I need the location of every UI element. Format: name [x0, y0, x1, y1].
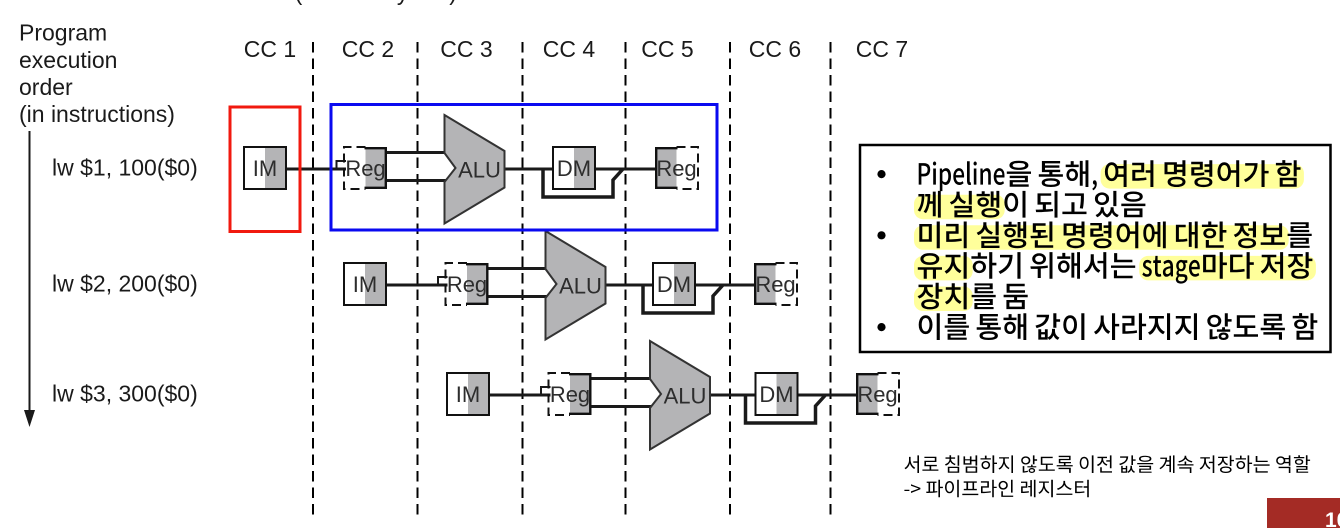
svg-text:CC 7: CC 7 [856, 36, 908, 62]
svg-text:lw $2, 200($0): lw $2, 200($0) [52, 271, 198, 297]
svg-text:Reg: Reg [345, 156, 385, 181]
svg-text:lw $3, 300($0): lw $3, 300($0) [52, 381, 198, 407]
svg-text:ALU: ALU [664, 384, 707, 409]
svg-text:IM: IM [456, 382, 480, 407]
svg-text:Time (in clock cycles): Time (in clock cycles) [238, 0, 457, 5]
svg-text:Reg: Reg [550, 382, 590, 407]
svg-text:(in instructions): (in instructions) [19, 101, 175, 127]
svg-text:IM: IM [353, 272, 377, 297]
svg-text:Reg: Reg [857, 382, 897, 407]
svg-text:execution: execution [19, 47, 117, 73]
svg-text:IM: IM [253, 156, 277, 181]
svg-text:Reg: Reg [755, 272, 795, 297]
svg-text:Reg: Reg [656, 156, 696, 181]
svg-text:order: order [19, 74, 73, 100]
svg-text:CC 3: CC 3 [440, 36, 492, 62]
svg-text:CC 6: CC 6 [749, 36, 801, 62]
svg-text:CC 2: CC 2 [342, 36, 394, 62]
svg-text:Program: Program [19, 20, 107, 46]
svg-text:CC 4: CC 4 [543, 36, 596, 62]
svg-text:CC 1: CC 1 [244, 36, 296, 62]
svg-text:ALU: ALU [559, 274, 602, 299]
svg-text:ALU: ALU [458, 158, 501, 183]
svg-text:DM: DM [657, 272, 691, 297]
svg-text:DM: DM [557, 156, 591, 181]
svg-text:10: 10 [1325, 509, 1340, 528]
svg-text:lw $1, 100($0): lw $1, 100($0) [52, 155, 198, 181]
svg-text:Reg: Reg [447, 272, 487, 297]
svg-text:DM: DM [759, 382, 793, 407]
svg-text:CC 5: CC 5 [641, 36, 693, 62]
